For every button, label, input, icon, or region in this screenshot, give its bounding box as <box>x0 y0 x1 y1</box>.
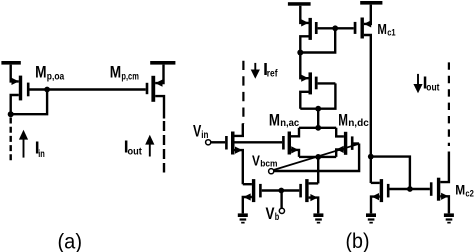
wire M_c1 drain long vertical <box>364 35 371 183</box>
wire diagonal V_bcm <box>274 144 360 170</box>
wire upper PMOS drain <box>300 36 308 52</box>
svg-text:V: V <box>193 122 201 141</box>
wire down to cascode node <box>317 109 319 128</box>
wire diode connection M_p,oa gate-drain <box>11 90 47 115</box>
node top of differential pair <box>315 125 321 131</box>
transistor input NMOS (V_in) <box>225 132 243 185</box>
wire V_in to gate <box>211 141 226 143</box>
wire lower PMOS drain <box>300 92 308 109</box>
wire rail to M_p,oa source <box>11 65 19 82</box>
supply rail (a) left <box>1 61 20 65</box>
ground tail <box>313 213 323 223</box>
svg-text:bcm: bcm <box>260 158 277 168</box>
transistor M_p,cm <box>146 76 163 102</box>
arrow I_ref <box>251 63 260 79</box>
transistor mirror diode NMOS <box>371 179 410 213</box>
ground mirror left <box>366 213 376 223</box>
wire gate bias bus V_b <box>281 189 299 191</box>
transistor bias NMOS left <box>243 179 281 213</box>
svg-text:b: b <box>275 212 280 223</box>
svg-text:ref: ref <box>267 69 278 80</box>
node V_b <box>278 188 284 194</box>
ground bias left <box>238 213 248 223</box>
svg-text:V: V <box>252 153 260 169</box>
wire gate bus V_in to M_n,ac <box>235 141 283 143</box>
transistor M_n,ac <box>282 128 299 157</box>
transistor M_c2 <box>410 152 449 214</box>
svg-text:(a): (a) <box>58 231 83 252</box>
wire mirror gate loop <box>371 157 410 189</box>
node gate of M_p,oa <box>44 87 50 93</box>
svg-text:in: in <box>201 130 208 141</box>
wire gate bus to M_c1 <box>335 27 354 29</box>
svg-text:out: out <box>426 83 440 94</box>
node drain upper PMOS <box>297 50 303 56</box>
svg-text:(b): (b) <box>346 230 370 252</box>
transistor tail current source <box>299 179 318 213</box>
wire M_p,cm drain <box>155 96 164 118</box>
node drain of M_p,oa <box>8 111 14 117</box>
wire dashed input branch (a) <box>9 118 11 161</box>
arrow I_out (b) <box>413 74 422 93</box>
wire to lower diode PMOS source <box>300 53 308 79</box>
svg-text:c2: c2 <box>465 188 474 198</box>
ground M_c2 <box>444 213 454 223</box>
wire tail down <box>317 157 319 184</box>
supply rail (a) right <box>150 61 175 65</box>
svg-text:out: out <box>128 147 143 158</box>
wire M_p,oa drain <box>11 95 19 114</box>
transistor lower diode PMOS <box>301 72 335 94</box>
wire V_b stub <box>280 191 282 209</box>
wire V_bcm to M_n,dc gate <box>274 144 360 172</box>
node on M_c1 drain <box>368 154 374 160</box>
svg-text:M: M <box>377 21 387 38</box>
svg-text:M: M <box>35 63 46 82</box>
terminal V_b <box>279 208 284 213</box>
wire gate bus M_p,oa to M_p,cm <box>47 88 146 90</box>
wire dashed I_out branch (b) <box>448 62 450 146</box>
svg-text:in: in <box>38 149 45 160</box>
svg-text:M: M <box>455 182 465 198</box>
svg-text:n,ac: n,ac <box>280 118 299 129</box>
svg-text:M: M <box>269 111 280 130</box>
wire dashed output branch (a) <box>163 121 165 173</box>
svg-text:n,dc: n,dc <box>348 118 369 129</box>
wire T_in drain <box>235 124 243 136</box>
terminal V_in <box>206 140 211 145</box>
svg-text:p,cm: p,cm <box>121 71 138 82</box>
arrow I_in <box>19 130 28 158</box>
wire dashed I_ref branch <box>242 61 244 124</box>
node lower PMOS drain bus <box>315 106 321 112</box>
wire rail to M_p,cm source <box>155 65 163 84</box>
node tail <box>315 154 321 160</box>
wire tail node <box>299 156 336 158</box>
transistor M_p,oa <box>12 76 48 101</box>
node mirror gate <box>407 186 413 192</box>
wire diode connection lower PMOS <box>300 83 335 108</box>
arrow I_out (a) <box>145 135 154 157</box>
svg-text:M: M <box>338 111 348 130</box>
wire rail to M_c1 source <box>364 5 371 24</box>
wire diode connection upper PMOS <box>300 28 335 52</box>
svg-text:M: M <box>110 63 121 82</box>
wire rail to upper diode PMOS source <box>300 6 308 23</box>
supply rail (b) left <box>288 2 311 5</box>
svg-text:c1: c1 <box>387 27 396 38</box>
node gate bus upper PMOS / M_c1 <box>332 25 338 31</box>
terminal V_bcm <box>269 169 274 174</box>
svg-text:p,oa: p,oa <box>47 71 65 82</box>
transistor M_n,dc <box>336 128 359 157</box>
supply rail (b) right <box>360 1 382 5</box>
transistor M_c1 <box>354 18 372 39</box>
transistor upper diode PMOS <box>301 18 335 40</box>
svg-text:V: V <box>266 204 275 223</box>
wire cascode top node <box>299 127 336 129</box>
